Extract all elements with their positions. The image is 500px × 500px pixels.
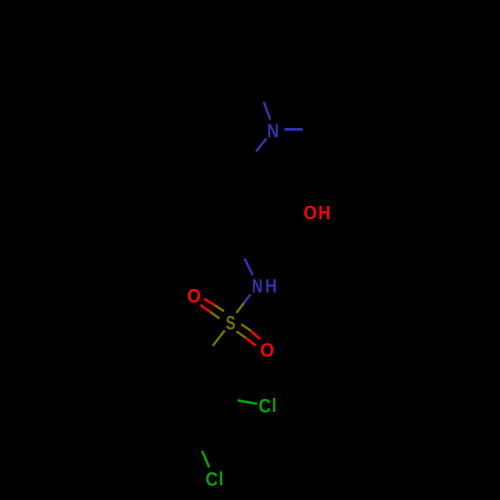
atom H of hydroxyl OH — [319, 206, 329, 219]
bond N1 right (blue half) — [284, 128, 302, 131]
bond S=O upper-left line 2 olive half — [210, 312, 219, 319]
atom Cl ortho chlorine l — [273, 398, 275, 412]
bond S=O upper-left line 1 olive half — [215, 305, 224, 311]
atom O sulfonyl lower-right — [261, 343, 273, 357]
bond S=O upper-left line 1 red half — [204, 299, 215, 305]
atom N1 tertiary amine label — [268, 124, 278, 137]
bond S=O lower-right line 2 olive half — [236, 331, 245, 337]
bond C-Cl meta (green half) — [202, 451, 209, 467]
atom S sulfonyl sulfur — [226, 316, 235, 330]
atom Cl meta chlorine C — [206, 472, 217, 486]
bond N1 down-left (blue half) — [256, 139, 267, 152]
atom O sulfonyl upper-left — [188, 289, 200, 303]
bond S=O upper-left line 2 red half — [201, 305, 211, 312]
bond NH up (blue half) — [245, 258, 253, 275]
atom N of sulfonamide NH — [253, 279, 262, 292]
bond N1 up (blue half) — [264, 102, 271, 120]
bond N-S blue half — [244, 294, 251, 303]
bond S=O lower-right line 1 olive half — [241, 324, 250, 330]
bond S=O lower-right line 1 red half — [251, 331, 260, 340]
bond N-S olive half — [236, 303, 244, 313]
bond S-C aryl (olive half) — [213, 330, 225, 346]
atom Cl meta chlorine l — [220, 471, 222, 485]
atom O of hydroxyl OH — [304, 206, 316, 220]
atom Cl ortho chlorine C — [259, 399, 270, 413]
bond S=O lower-right line 2 red half — [246, 338, 256, 346]
atom H of sulfonamide NH — [266, 279, 276, 292]
bond C-Cl ortho (green half) — [238, 400, 257, 403]
